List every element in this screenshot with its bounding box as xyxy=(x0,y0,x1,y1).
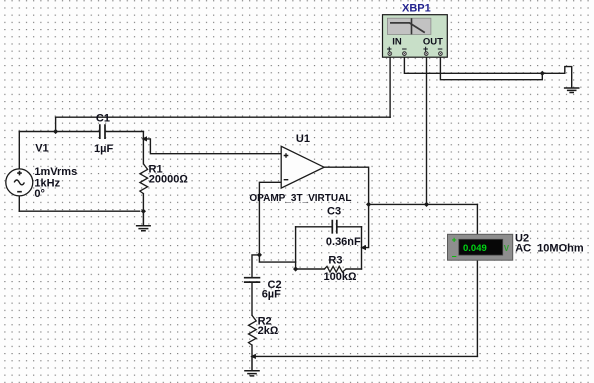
svg-text:C3: C3 xyxy=(327,205,341,217)
capacitor C3 xyxy=(332,220,337,234)
wire feedback box right vertical xyxy=(361,227,363,269)
wire minus node to C2 xyxy=(252,255,259,277)
wire op-amp plus input xyxy=(146,139,281,154)
junction node at minus input xyxy=(257,252,262,257)
wire C2 to R2 xyxy=(251,282,253,315)
wire op-amp minus input xyxy=(259,182,281,255)
voltage source V1 xyxy=(6,169,33,196)
capacitor C2 xyxy=(244,278,260,282)
resistor R3 xyxy=(324,266,346,272)
ground right of XBP1 xyxy=(564,88,580,93)
svg-text:U1: U1 xyxy=(296,133,310,145)
svg-text:100kΩ: 100kΩ xyxy=(324,271,357,283)
V1 labels xyxy=(34,142,77,200)
resistor R1 xyxy=(140,164,148,194)
wire XBP1 IN+ vertical xyxy=(389,56,391,118)
C1 labels xyxy=(94,113,113,155)
svg-text:20000Ω: 20000Ω xyxy=(149,174,189,186)
svg-text:6µF: 6µF xyxy=(262,289,281,301)
wire V1 top stub xyxy=(18,132,20,169)
wire feedback tap from output xyxy=(365,204,369,247)
wire feedback box bottom branch right xyxy=(346,268,361,270)
connection arrow bottom return onto R2 wire xyxy=(250,354,256,359)
wire upper horizontal to XBP1 IN+ xyxy=(56,116,391,118)
connection arrow op-amp plus input onto R1 wire xyxy=(141,136,147,141)
junction node at R1 bottom / ground xyxy=(141,209,146,214)
svg-text:AC 10MOhm: AC 10MOhm xyxy=(515,242,584,254)
wire to right ground xyxy=(542,67,571,88)
svg-text:XBP1: XBP1 xyxy=(402,3,431,15)
C2 labels xyxy=(262,279,282,301)
svg-text:OPAMP_3T_VIRTUAL: OPAMP_3T_VIRTUAL xyxy=(249,193,351,204)
svg-text:IN: IN xyxy=(392,37,402,48)
svg-text:V: V xyxy=(504,244,510,253)
R1 labels xyxy=(149,164,189,186)
svg-text:+: + xyxy=(452,234,457,244)
wire R1 top segment xyxy=(142,132,144,164)
svg-text:0.049: 0.049 xyxy=(463,243,487,254)
svg-text:−: − xyxy=(452,252,457,262)
wire R1 bottom segment xyxy=(142,194,144,212)
wire feedback box left vertical xyxy=(295,227,297,269)
wire XBP1 OUT+ vertical xyxy=(426,56,428,205)
junction node at output xyxy=(366,202,371,207)
junction node at V1/C1 tap xyxy=(53,129,58,134)
instrument XBP1 Bode plotter xyxy=(383,15,448,58)
junction node at OUT+ column xyxy=(424,202,429,207)
svg-text:2kΩ: 2kΩ xyxy=(258,325,279,337)
wire U2 top lead xyxy=(476,204,478,234)
svg-text:R3: R3 xyxy=(328,254,342,266)
connection arrow feedback tap onto box right wire xyxy=(360,245,366,250)
R3 labels xyxy=(324,254,357,283)
svg-text:1µF: 1µF xyxy=(94,143,113,155)
wire feedback box top branch (interrupted by C3) xyxy=(296,226,362,228)
svg-text:0°: 0° xyxy=(34,188,45,200)
ground under R2 xyxy=(244,357,260,376)
wire R2 bottom to ground node xyxy=(251,345,253,356)
op-amp U1 xyxy=(281,146,324,188)
multimeter U2 xyxy=(448,234,513,261)
wire U2 bottom lead xyxy=(476,260,478,356)
R2 labels xyxy=(258,316,279,337)
wire XBP1 IN- routing xyxy=(404,56,542,74)
svg-text:1mVrms: 1mVrms xyxy=(34,166,77,178)
U1 labels xyxy=(249,133,351,204)
svg-text:0.36nF: 0.36nF xyxy=(326,236,361,248)
U2 labels xyxy=(515,233,584,255)
wire op-amp output xyxy=(324,167,369,204)
junction node at feedback box bottom-left xyxy=(293,266,298,271)
svg-text:C1: C1 xyxy=(96,113,110,125)
wire bottom horizontal V1 to ground node xyxy=(19,210,139,212)
wire output horizontal to U2 xyxy=(369,203,478,205)
wire XBP1 OUT- routing xyxy=(440,56,542,80)
capacitor C1 xyxy=(100,124,105,139)
wire V1 bottom stub xyxy=(18,197,20,212)
wire minus node to feedback left xyxy=(259,255,295,262)
svg-text:V1: V1 xyxy=(35,142,48,154)
wire bottom return to R2 node xyxy=(255,355,478,357)
C3 labels xyxy=(326,205,361,248)
wire branch up to tap node xyxy=(55,117,57,131)
ground under R1 xyxy=(136,211,151,231)
junction node at IN-/OUT- merge xyxy=(540,71,545,76)
wire top horizontal V1 to R1 (interrupted by C1) xyxy=(19,131,143,133)
wire feedback box bottom branch left xyxy=(296,268,325,270)
resistor R2 xyxy=(249,315,257,345)
